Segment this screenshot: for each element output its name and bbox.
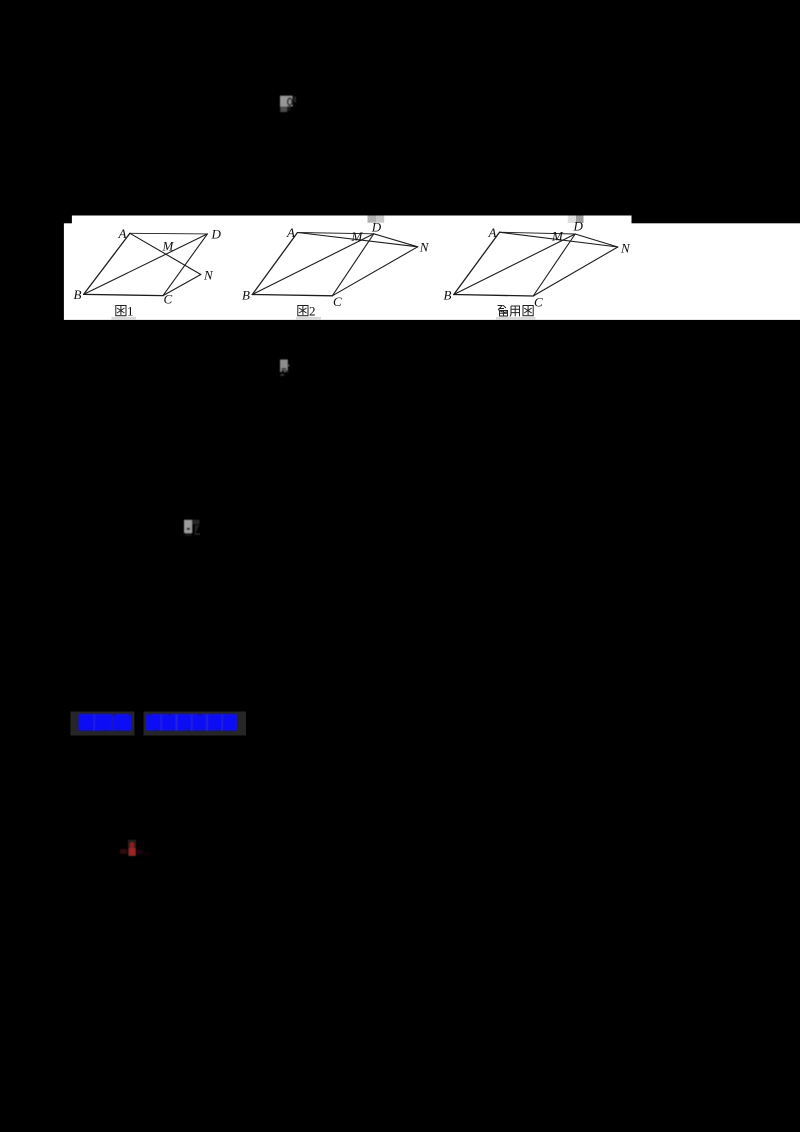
- gray smudge above D figure3: [568, 216, 576, 224]
- red smear left: [120, 849, 128, 854]
- fig1 segment AN: [130, 233, 201, 274]
- fig3 edge AB: [454, 232, 500, 294]
- fig1 diagonal BD: [84, 234, 208, 295]
- heading blue text group 1: [79, 714, 132, 732]
- gray smudge above D figure2: [368, 216, 377, 223]
- red smear streak: [143, 852, 151, 856]
- fig1 segment CN: [163, 275, 201, 296]
- fig2 segment CN: [332, 247, 417, 296]
- svg-text:M: M: [162, 239, 175, 254]
- svg-text:M: M: [351, 229, 364, 244]
- svg-text:A: A: [118, 226, 127, 241]
- svg-text:N: N: [203, 268, 214, 283]
- fig1 edge AB: [84, 233, 130, 294]
- fig2 caption underline highlight: [296, 317, 321, 320]
- svg-text:N: N: [419, 240, 430, 255]
- fig3 segment CN: [533, 247, 618, 296]
- svg-text:A: A: [286, 225, 295, 240]
- fig3 segment DC: [533, 234, 575, 296]
- svg-text:B: B: [242, 288, 250, 303]
- fig2 caption 图2: [298, 306, 308, 316]
- svg-text:M: M: [551, 229, 564, 244]
- fig3 caption 备用图: [498, 305, 534, 316]
- heading dark background block 1: [70, 712, 134, 736]
- heading blue text group 2: [146, 714, 237, 732]
- fig1 caption 图1: [116, 306, 126, 316]
- gray blob lower (partial glyph): [184, 520, 200, 536]
- fig2 edge BC: [252, 295, 332, 296]
- fig1 edge BC: [84, 294, 163, 295]
- fig1 caption underline highlight: [112, 317, 137, 320]
- fig3 segment DN: [575, 234, 618, 247]
- fig2 segment DN: [374, 234, 418, 247]
- red smear right: [136, 849, 143, 854]
- red mark glyph: [129, 842, 136, 856]
- fig3 edge BC: [454, 295, 533, 297]
- gray blob mid (partial glyph): [280, 360, 289, 376]
- red mark dark box: [128, 840, 137, 857]
- svg-text:B: B: [444, 288, 452, 303]
- svg-text:C: C: [164, 292, 173, 307]
- fig3 caption underline highlight: [496, 317, 536, 320]
- fig3 diagonal BD: [454, 234, 575, 295]
- gray blob top (partial glyph): [280, 96, 296, 112]
- svg-text:D: D: [371, 219, 382, 234]
- svg-text:D: D: [573, 219, 584, 234]
- fig3 edge AD: [500, 232, 576, 234]
- svg-text:1: 1: [127, 304, 134, 319]
- fig1 edge CD: [163, 234, 207, 296]
- svg-text:D: D: [211, 227, 222, 242]
- fig2 edge AB: [252, 233, 297, 295]
- svg-text:C: C: [534, 295, 543, 310]
- fig2 edge AD: [298, 233, 374, 234]
- heading dark background block 2: [144, 712, 247, 736]
- svg-text:A: A: [488, 225, 497, 240]
- fig2 segment DC: [332, 234, 374, 296]
- fig2 segment AN: [298, 233, 418, 247]
- fig1 edge AD: [130, 232, 208, 235]
- svg-text:B: B: [74, 287, 82, 302]
- svg-text:2: 2: [309, 304, 316, 319]
- svg-text:C: C: [333, 294, 342, 309]
- fig3 segment AN: [500, 232, 618, 247]
- white band top strip: [72, 216, 632, 226]
- svg-text:N: N: [620, 241, 631, 256]
- white band main: [64, 223, 800, 320]
- fig2 diagonal BD: [252, 234, 373, 295]
